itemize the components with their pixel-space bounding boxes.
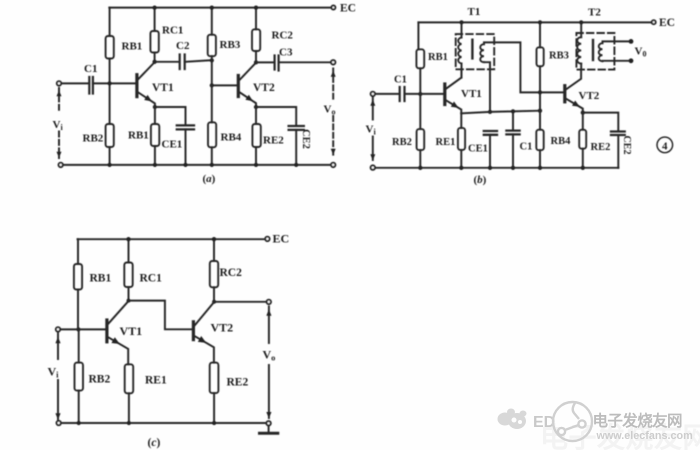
svg-text:RE2: RE2 [227, 377, 249, 389]
svg-text:T2: T2 [588, 7, 601, 19]
svg-text:RB4: RB4 [551, 136, 572, 147]
wire: input to VT1 base (c) [60, 328, 105, 330]
svg-text:Vi: Vi [48, 365, 60, 380]
resistor RB1 (b) [416, 49, 424, 68]
capacitor CE1 (b) [484, 131, 497, 135]
capacitor C2 [180, 55, 185, 70]
svg-text:Vo: Vo [263, 348, 276, 363]
svg-text:C1: C1 [394, 75, 407, 86]
node: rail-RB3 (b) [538, 20, 542, 24]
transistor VT1 (b) collector [446, 69, 461, 88]
svg-text:VT1: VT1 [152, 82, 174, 94]
node: input node (c) [76, 327, 80, 331]
resistor RB2 (b) [419, 94, 421, 129]
svg-text:CE1: CE1 [162, 139, 183, 151]
node: input bias node [107, 81, 111, 85]
svg-text:C1: C1 [520, 142, 533, 153]
wire: emitter to CE1 [155, 107, 186, 125]
svg-text:C1: C1 [84, 63, 97, 75]
wire: circuit (a) top supply rail [109, 7, 331, 9]
svg-text:VT2: VT2 [253, 82, 275, 94]
resistor RC1 (c) [128, 239, 130, 262]
node: rail-RC1 (c) [126, 237, 130, 241]
nodes on bottom rail (b) [418, 166, 422, 170]
resistor RE2 [255, 107, 257, 124]
resistor RC1 [154, 8, 156, 31]
svg-text:RB1: RB1 [128, 130, 149, 142]
svg-text:4: 4 [662, 140, 668, 152]
transistor VT1 emitter with arrow [138, 92, 155, 107]
svg-text:EC: EC [273, 232, 290, 246]
node: bypass line meets RB3 column [538, 109, 542, 113]
transformer T1 secondary winding [480, 44, 484, 62]
terminal: input bottom [59, 163, 63, 167]
svg-text:RB1: RB1 [428, 52, 448, 63]
transistor VT1 (b) emitter with arrow [446, 100, 461, 113]
resistor RE1 (c) [125, 364, 134, 393]
svg-text:C3: C3 [279, 47, 293, 59]
wire: RB1 column from rail to input node [109, 8, 111, 36]
svg-text:CE1: CE1 [468, 144, 488, 155]
wire: circuit (c) top supply rail [78, 238, 266, 240]
transistor VT2 (b) base bar [563, 86, 566, 102]
node: input bias node (b) [418, 92, 422, 96]
measure line V_o (c) [268, 307, 270, 344]
svg-text:EC: EC [340, 3, 356, 15]
transformer T1 primary winding [461, 22, 463, 37]
transistor VT1 (b) base bar [443, 84, 446, 105]
node: VT2 emitter [254, 105, 258, 109]
svg-text:Vo: Vo [324, 104, 336, 117]
resistor RE1 (labelled RB1) [154, 107, 156, 124]
wire: VT1 emitter to bypass line [461, 111, 540, 114]
ground symbol [268, 426, 270, 433]
measure line V_i (b) [372, 97, 374, 120]
transistor VT2 (b) emitter with arrow [566, 99, 583, 113]
svg-text:RE1: RE1 [436, 137, 456, 148]
svg-text:RB1: RB1 [122, 41, 143, 53]
watermark mascot blob [498, 409, 527, 430]
resistor RB2 [109, 85, 111, 124]
svg-text:www.elecfans.com: www.elecfans.com [596, 430, 693, 442]
wire: emitter to CE2 (b) [583, 113, 619, 132]
svg-text:RE2: RE2 [263, 135, 284, 147]
wire: input to C1 (b) [375, 93, 398, 95]
resistor RE1 (b) [460, 113, 462, 128]
svg-text:V0: V0 [635, 46, 647, 59]
wire: T1 secondary bottom lead [484, 62, 490, 112]
transformer T2 dashed box [576, 33, 614, 70]
svg-text:RB3: RB3 [549, 51, 569, 62]
capacitor C1 [89, 77, 93, 94]
svg-text:RB4: RB4 [221, 132, 242, 144]
transistor VT2 (c) emitter with arrow [195, 336, 214, 362]
resistor RB3 [211, 8, 213, 35]
capacitor CE2 (b) [611, 132, 625, 136]
wire: VT2 collector to output (c) [214, 301, 267, 303]
transistor VT2 (b) collector [566, 70, 581, 90]
wire: T1 secondary top lead to VT2 base [484, 42, 564, 92]
svg-text:RC2: RC2 [220, 267, 243, 279]
resistor RB1 [106, 36, 114, 59]
svg-text:RB2: RB2 [89, 374, 111, 386]
node: rail-RC2 (c) [212, 237, 216, 241]
terminal: input top (c) [56, 327, 60, 331]
terminal: input bottom (b) [371, 165, 375, 169]
svg-text:Vi: Vi [53, 119, 64, 132]
capacitor C1 (b middle) [512, 111, 514, 130]
svg-text:RE1: RE1 [145, 375, 167, 387]
transistor VT1 collector [138, 62, 154, 79]
svg-text:Vi: Vi [366, 124, 377, 137]
wire: C2 to VT2 base node [185, 60, 212, 62]
capacitor C3 [275, 56, 279, 71]
nodes on bottom rail (c) [77, 421, 81, 425]
terminal: EC supply (c) [265, 237, 269, 241]
wire: collector node to C2 [155, 61, 179, 63]
capacitor CE2 [289, 126, 304, 130]
svg-text:RE2: RE2 [591, 142, 611, 153]
wire: RB1 column (c) [77, 239, 79, 264]
terminal: output top [331, 60, 335, 64]
resistor RB4 [211, 85, 213, 122]
nodes on bottom rail [107, 163, 111, 167]
resistor RB1 (c) [74, 264, 82, 290]
node: rail-RB3 [210, 5, 214, 9]
wire: VT2 base wire [212, 84, 237, 86]
svg-text:VT2: VT2 [211, 321, 234, 335]
transistor VT2 collector [240, 63, 256, 80]
transistor VT1 (c) base bar [105, 320, 108, 342]
svg-text:RB1: RB1 [90, 273, 112, 285]
resistor RE2 (b) [582, 113, 584, 130]
node: VT2 emitter (b) [581, 110, 585, 114]
svg-text:(a): (a) [203, 173, 216, 185]
wire: coupling VT1 collector to VT2 base [129, 301, 192, 330]
wire: input to C1 [61, 82, 88, 84]
resistor RB2 (c) [78, 329, 80, 362]
svg-text:T1: T1 [468, 6, 481, 18]
node: rail-RC1 [152, 5, 156, 9]
svg-text:EC: EC [659, 17, 675, 29]
wire: emitter to CE2 [256, 107, 296, 126]
svg-text:(c): (c) [148, 437, 161, 449]
svg-text:VT1: VT1 [120, 324, 143, 338]
transistor VT2 base bar [237, 76, 240, 97]
transformer T2 primary winding [580, 22, 582, 37]
resistor RC2 [255, 8, 257, 30]
transistor VT2 emitter with arrow [240, 92, 256, 107]
wire: circuit (b) top supply rail [418, 21, 651, 23]
node: emitter bypass junction [488, 110, 492, 114]
wire: C3 to output [279, 61, 331, 63]
svg-text:CE2: CE2 [621, 136, 632, 155]
node: base junction [210, 83, 214, 87]
transformer T1 core [471, 40, 473, 59]
node: VT2 collector (c) [212, 300, 216, 304]
svg-text:RB2: RB2 [83, 133, 104, 145]
watermark circle logo [553, 402, 592, 441]
node: VT1 collector [152, 60, 156, 64]
transistor VT2 (c) base bar [192, 322, 195, 340]
terminal: EC supply (b) [652, 20, 656, 24]
transistor VT2 (c) collector [195, 302, 214, 325]
capacitor CE1 [177, 125, 194, 129]
svg-text:RC1: RC1 [162, 25, 183, 37]
transformer T2 core [592, 40, 594, 60]
node: C2-RB3 junction [210, 58, 214, 62]
terminal: EC supply [331, 6, 335, 10]
svg-text:RB2: RB2 [392, 137, 412, 148]
node: VT2 collector [254, 60, 258, 64]
wire: C1 to VT1 base [93, 82, 135, 84]
resistor RE2 (c) [210, 363, 219, 394]
terminal: output top (c) [267, 300, 271, 304]
terminal: V0 output dots [629, 39, 634, 44]
transistor VT1 base bar [135, 75, 138, 97]
terminal: output bottom [331, 163, 335, 167]
transistor VT1 (c) collector [108, 301, 128, 324]
node: secondary wire crosses RB3 column [538, 90, 542, 94]
transformer T1 dashed box [456, 34, 495, 69]
node: rail-T2 [579, 20, 583, 24]
terminal: input bottom (c) [57, 421, 61, 425]
terminal: input top [57, 81, 61, 85]
node: VT1 emitter [153, 105, 157, 109]
wire: C1 to VT1 base (b) [405, 93, 444, 95]
wire: T2 secondary to output terminals [603, 41, 630, 43]
transformer T2 secondary winding [599, 43, 603, 61]
resistor RB4 (b) [536, 130, 543, 151]
measure line V_i (c) [57, 334, 59, 360]
node: rail-T1 [459, 20, 463, 24]
wire: circuit (b) bottom rail [375, 167, 618, 169]
svg-text:电子发烧友网: 电子发烧友网 [593, 411, 683, 430]
svg-text:(b): (b) [474, 174, 487, 186]
svg-text:CE2: CE2 [300, 129, 311, 149]
capacitor C1 (b) [400, 87, 405, 101]
svg-text:VT1: VT1 [461, 88, 482, 100]
svg-text:VT2: VT2 [579, 90, 600, 102]
measure line V_i dashed with arrows [58, 88, 60, 112]
transistor VT1 (c) emitter with arrow [108, 337, 128, 364]
wire: circuit (a) bottom rail [63, 164, 331, 166]
svg-text:RC2: RC2 [272, 30, 294, 42]
resistor RC2 (c) [213, 239, 215, 261]
node: VT1 collector (c) [127, 299, 131, 303]
wire: RB1 column [417, 22, 419, 49]
terminal: input top (b) [371, 92, 375, 96]
measure line V_o dashed with arrows [332, 69, 334, 100]
terminal: ground terminal (c) [266, 421, 270, 425]
wire: collector to C3 [256, 61, 273, 63]
svg-text:C2: C2 [176, 40, 190, 52]
wire: circuit (c) bottom rail [61, 422, 267, 424]
resistor RB3 (b) [539, 22, 541, 47]
svg-text:RC1: RC1 [140, 273, 163, 285]
circled number 4 [657, 137, 673, 153]
svg-text:RB3: RB3 [220, 39, 241, 51]
node: rail-RC2 [254, 5, 258, 9]
